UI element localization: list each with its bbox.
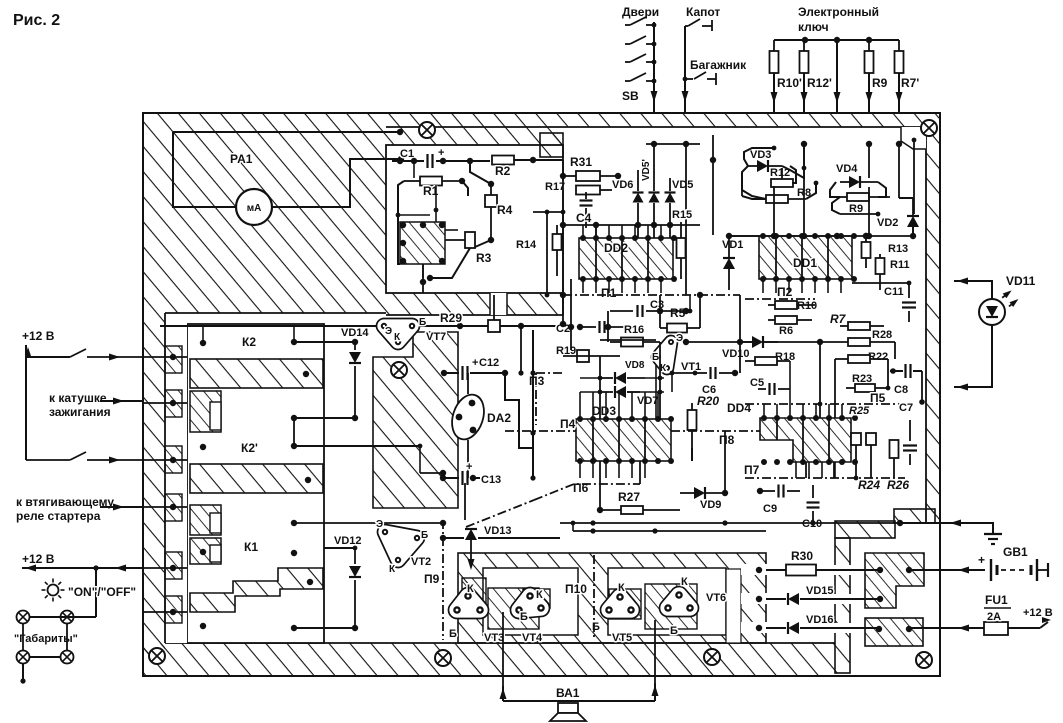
wire K2b pads link — [293, 418, 295, 446]
wire R2R4 — [470, 161, 491, 184]
wire DA2 top — [467, 373, 469, 394]
diode VD13 — [443, 537, 464, 539]
node C1 feed — [398, 156, 404, 162]
wire PA1 right — [271, 159, 401, 207]
svg-text:Рис. 2: Рис. 2 — [13, 12, 60, 29]
dash-dot П7 — [745, 477, 905, 479]
wire BA1 right — [654, 683, 656, 701]
transistor VT2 — [385, 532, 417, 560]
wire R9 left loop — [832, 197, 840, 214]
wire vert 871 down — [870, 445, 872, 478]
svg-text:R9: R9 — [872, 76, 888, 90]
wire row R29 — [160, 325, 380, 327]
lamp symbol sun — [48, 585, 59, 596]
switch starter — [26, 459, 70, 461]
lamp Габариты 3 — [17, 651, 30, 664]
wire vert 700 — [699, 295, 701, 328]
IC DD4 — [760, 418, 851, 462]
wire vert 600 mid — [599, 356, 601, 419]
wire VT1 down2 — [671, 373, 673, 392]
wire K2b row2 — [294, 445, 420, 447]
wire hor 538b — [560, 537, 593, 539]
resistor R4 — [485, 195, 497, 207]
board outline — [143, 113, 940, 676]
wire R8 left — [742, 196, 766, 199]
resistor R30 — [766, 569, 787, 571]
pads right slot — [756, 567, 762, 573]
wire VD16 to edge — [909, 627, 940, 629]
wire mid vertical 1 — [505, 373, 533, 448]
led arrows VD11 — [1000, 288, 1020, 309]
wire through DD2 — [595, 238, 597, 279]
wire key bus — [774, 39, 899, 41]
relay pad 12 — [305, 477, 311, 483]
wire bus DD2 top — [563, 224, 700, 226]
dash-dot П3 — [536, 372, 565, 374]
svg-text:VD8: VD8 — [625, 360, 645, 371]
copper finger 2 — [190, 505, 221, 535]
wire vert 894 down — [893, 458, 895, 478]
svg-text:VT1: VT1 — [681, 361, 701, 373]
svg-text:+: + — [472, 357, 478, 369]
wire vert 547 — [546, 212, 548, 295]
relay pad 6 — [291, 520, 297, 526]
copper sliver right of C1 region — [540, 133, 563, 157]
svg-text:R25: R25 — [849, 405, 870, 417]
dash-dot П2 — [745, 298, 815, 300]
wire VD6 up — [637, 170, 639, 191]
svg-text:П2: П2 — [777, 285, 793, 299]
wire row 373 ext — [673, 372, 695, 374]
svg-text:к втягивающему: к втягивающему — [16, 495, 114, 509]
relay pad 5 — [291, 443, 297, 449]
white slot in band — [490, 293, 507, 315]
svg-text:П8: П8 — [719, 433, 735, 447]
svg-text:R2: R2 — [495, 164, 511, 178]
wire R12 stubs — [781, 168, 783, 179]
white circuit region C1/R1 — [386, 145, 563, 293]
wire vert 660 — [659, 295, 661, 328]
svg-text:Электронный: Электронный — [798, 5, 879, 19]
wire lamps bottom — [30, 656, 61, 658]
svg-text:DD1: DD1 — [793, 256, 817, 270]
svg-text:R4: R4 — [497, 203, 513, 217]
svg-text:DD3: DD3 — [592, 404, 616, 418]
wire vert 571 — [570, 279, 572, 350]
wire K1 pad to bus — [294, 522, 443, 524]
copper band K2 — [190, 359, 323, 388]
wire key2 to DD1 — [803, 144, 805, 236]
wire hor 523 — [560, 522, 900, 524]
power pad 4 — [876, 626, 882, 632]
relay pad 4 — [200, 444, 206, 450]
stubs DD4 bottom — [795, 462, 797, 478]
wire R20 bottom — [691, 448, 693, 461]
svg-text:Э: Э — [376, 519, 383, 530]
relay pad 1 — [200, 340, 206, 346]
wire DD3 stub1 — [599, 461, 601, 510]
relay pad 7 — [200, 549, 206, 555]
wire bus DD1 top — [729, 235, 913, 237]
svg-text:VD6: VD6 — [612, 179, 633, 191]
wire channel 2 — [741, 593, 773, 604]
wire hor 295 stub — [689, 295, 691, 311]
wire hor 160b — [563, 159, 571, 161]
copper finger 1 — [190, 391, 221, 432]
svg-text:С12: С12 — [479, 357, 499, 369]
screw top middle — [419, 122, 435, 138]
copper band K1 staircase — [190, 568, 323, 612]
svg-text:ВА1: ВА1 — [556, 686, 580, 700]
pins DD1 — [760, 233, 766, 239]
wire vert 856 down — [855, 445, 857, 478]
wire к катушке — [100, 400, 143, 402]
small part R25b — [866, 433, 876, 445]
white slot right — [726, 569, 741, 643]
resistor R1 — [404, 180, 420, 182]
frame inner edge top — [386, 126, 926, 128]
wire +12V lower — [22, 567, 143, 569]
svg-text:R3: R3 — [476, 251, 492, 265]
svg-text:VD15: VD15 — [806, 585, 834, 597]
left tab 4 — [165, 494, 182, 521]
wire lamp stub — [22, 663, 24, 681]
IC DD3 — [576, 419, 671, 461]
copper mass bottom — [458, 553, 766, 643]
power pad 3 — [877, 596, 883, 602]
wire vert 608 — [607, 311, 609, 342]
svg-text:R12': R12' — [807, 76, 832, 90]
diode VD12 — [354, 548, 356, 564]
wire row 378 — [580, 377, 600, 379]
svg-text:R10: R10 — [797, 300, 817, 312]
node VD13 — [440, 535, 446, 541]
svg-text:С9: С9 — [763, 503, 777, 515]
frame inner edge right — [925, 127, 927, 523]
wire VD3 loop2 — [744, 148, 774, 166]
wire through DD4 — [776, 418, 778, 440]
svg-text:С5: С5 — [750, 377, 764, 389]
IC DD2 — [579, 238, 673, 279]
wire through DD3 — [592, 419, 594, 461]
wire hor 448 — [855, 447, 880, 449]
svg-text:GB1: GB1 — [1003, 545, 1028, 559]
pins DD2 — [580, 235, 586, 241]
svg-text:VD1: VD1 — [722, 239, 743, 251]
wire channel 1 — [741, 564, 773, 575]
svg-text:2А: 2А — [987, 611, 1001, 623]
svg-text:С8: С8 — [894, 384, 908, 396]
power pad block 2 — [865, 618, 923, 646]
wire K1 to VD12 — [294, 627, 355, 629]
copper pad square R3 — [400, 222, 445, 264]
capacitor C13 — [443, 477, 459, 479]
svg-text:Багажник: Багажник — [690, 58, 747, 72]
wire B v3 — [422, 264, 424, 278]
power strip gaps — [833, 565, 852, 575]
relay pad 3 — [291, 415, 297, 421]
wire PA1 top — [173, 131, 400, 133]
copper block PA1 area — [165, 127, 386, 313]
wire vert 835 — [834, 359, 836, 418]
dash-dot П4П8 — [505, 430, 576, 432]
screw top right — [921, 120, 937, 136]
svg-text:К: К — [618, 582, 625, 594]
wire vert 596 — [595, 225, 597, 238]
svg-text:П5: П5 — [870, 391, 886, 405]
wire +12V top — [26, 345, 70, 357]
svg-text:R7: R7 — [830, 312, 847, 326]
power pad 5 — [906, 626, 912, 632]
svg-text:VD16: VD16 — [806, 614, 834, 626]
svg-text:VT5: VT5 — [612, 632, 632, 644]
svg-text:К: К — [536, 589, 543, 601]
wire DD4 stubs — [805, 462, 807, 478]
svg-text:П7: П7 — [744, 463, 760, 477]
wire vert 820 — [819, 342, 821, 418]
svg-text:VD2: VD2 — [877, 217, 898, 229]
dash-dot П9 — [442, 520, 444, 640]
wire key right — [898, 144, 900, 198]
resistor R10' — [773, 40, 775, 51]
meter PA1 мА — [236, 189, 272, 225]
wire channel 3 — [741, 622, 773, 633]
dash-dot П5 — [745, 403, 908, 405]
border band right — [926, 127, 940, 523]
svg-text:Э: Э — [676, 333, 683, 344]
svg-text:VD4: VD4 — [836, 163, 858, 175]
svg-text:Э: Э — [385, 326, 392, 337]
dash-dot П1 vert — [562, 295, 564, 310]
copper band below C1 region — [386, 293, 563, 315]
wire VT1 down1 — [655, 365, 657, 419]
wire vert 660 mid — [659, 342, 661, 419]
svg-text:+: + — [978, 553, 985, 567]
svg-text:R15: R15 — [672, 209, 692, 221]
svg-text:+12 В: +12 В — [1023, 607, 1053, 619]
diode VD16 — [766, 627, 786, 629]
wire R30 to edge — [909, 569, 940, 571]
wire vert 895 — [894, 342, 896, 359]
wire row 342 ext — [686, 341, 752, 343]
wire ON/OFF stem — [95, 568, 97, 617]
svg-text:П3: П3 — [529, 374, 545, 388]
svg-text:R5: R5 — [670, 306, 686, 320]
island VT5 collector — [609, 589, 641, 619]
transistor VT1 — [658, 342, 671, 368]
wire row 531 — [573, 530, 766, 532]
left channel — [166, 320, 187, 643]
wire FU1 out — [1008, 627, 1040, 629]
diode VD14 — [354, 342, 356, 350]
left tab 5 — [165, 552, 182, 579]
wire K2b to VD14 — [294, 417, 355, 419]
svg-text:К: К — [681, 576, 688, 588]
wire vert 593 — [592, 523, 594, 538]
screw near C12 — [391, 362, 407, 378]
svg-text:R14: R14 — [516, 239, 537, 251]
svg-text:R29: R29 — [440, 311, 462, 325]
wire hor DD1 к — [729, 235, 759, 237]
wire B h1 — [398, 214, 430, 216]
wire relay r1 — [202, 326, 204, 343]
fuse FU1 — [984, 622, 1008, 635]
left tab pad 4 — [170, 504, 176, 510]
relay pad 8 — [291, 550, 297, 556]
relay pad 9 — [200, 623, 206, 629]
svg-text:реле стартера: реле стартера — [16, 509, 101, 523]
svg-text:PA1: PA1 — [230, 152, 253, 166]
wire VD4 stubs — [868, 144, 870, 178]
wire DA2 down — [467, 440, 469, 478]
svg-text:R30: R30 — [791, 549, 813, 563]
wire hor 340 — [600, 339, 656, 341]
svg-text:R7': R7' — [901, 76, 919, 90]
wire hor 311 ext — [660, 310, 686, 312]
svg-text:VT6: VT6 — [706, 592, 726, 604]
svg-text:Двери: Двери — [622, 5, 659, 19]
svg-text:VD14: VD14 — [341, 327, 369, 339]
wire mid vertical 2 — [520, 326, 522, 373]
wire FU1 — [940, 627, 984, 629]
resistor R3 — [465, 232, 475, 248]
svg-text:К: К — [394, 332, 401, 343]
wire реле стартера — [100, 506, 143, 508]
screw bottom left — [149, 648, 165, 664]
notch finger 3 — [210, 545, 221, 562]
wire row 392 — [580, 391, 600, 393]
capacitor C4 — [580, 199, 593, 201]
svg-text:VD10: VD10 — [722, 348, 750, 360]
ground symbol — [984, 533, 1002, 535]
svg-text:К1: К1 — [244, 540, 258, 554]
wire vert 686 — [685, 235, 687, 295]
stubs DD3 top — [579, 392, 581, 419]
dash-dot П10 — [593, 555, 595, 640]
wire vert 837 down — [836, 113, 838, 236]
left tab pad 5 — [170, 565, 176, 571]
wire +12V stem — [25, 357, 27, 460]
wire lamps top — [30, 616, 96, 618]
wire B h2 — [445, 229, 458, 231]
frame inner edge bottom — [165, 642, 835, 644]
lamp Габариты 4 — [61, 651, 74, 664]
wire VD12 top — [324, 547, 355, 549]
svg-text:VD9: VD9 — [700, 499, 721, 511]
speaker BA1 — [558, 703, 578, 713]
left tab pad 6 — [170, 609, 176, 615]
svg-text:R22: R22 — [868, 351, 888, 363]
left tab 6 — [165, 596, 182, 623]
switch ignition — [70, 349, 86, 357]
power top strip — [835, 521, 895, 538]
wire vert 713 — [712, 135, 714, 235]
diode VD15 — [766, 598, 786, 600]
relay pad 10 — [291, 625, 297, 631]
island VT4 collector — [523, 589, 550, 608]
resistor R7' top — [898, 40, 900, 51]
svg-text:R28: R28 — [872, 329, 892, 341]
wire B v1 — [413, 161, 415, 178]
svg-text:К2': К2' — [241, 441, 258, 455]
svg-text:R20: R20 — [697, 394, 719, 408]
wire vert left 563 — [562, 160, 564, 324]
svg-text:+: + — [438, 147, 444, 159]
svg-text:С13: С13 — [481, 474, 501, 486]
relay pad 11 — [303, 371, 309, 377]
switch Багажник — [685, 78, 693, 80]
stubs DD3 bottom — [579, 461, 581, 478]
wire PA1 loop — [173, 132, 237, 207]
wire C13 down — [464, 483, 466, 520]
svg-text:+12 В: +12 В — [22, 329, 55, 343]
wire DD3 stub2 — [639, 461, 641, 484]
border band top — [143, 113, 940, 127]
transistor VT4 — [519, 596, 541, 610]
svg-text:DA2: DA2 — [487, 411, 511, 425]
svg-text:VT2: VT2 — [411, 556, 431, 568]
wire B misc — [422, 264, 424, 293]
left tab 3 — [165, 446, 182, 473]
wire doors bus — [653, 22, 655, 113]
power pad block 1 — [865, 553, 924, 608]
relay pad 2 — [291, 339, 297, 345]
wire R12 right — [790, 166, 796, 183]
cutout VT5/VT6 — [608, 568, 726, 635]
copper band K2b — [190, 464, 323, 493]
svg-text:R16: R16 — [624, 324, 644, 336]
power pad 2 — [906, 567, 912, 573]
wire R18 vert — [789, 361, 791, 404]
svg-text:R26: R26 — [887, 478, 909, 492]
notch finger 2 — [210, 513, 221, 533]
wire hor 463 — [671, 439, 760, 441]
wire K2 to VD14 — [294, 341, 355, 343]
wire VD13 drop — [470, 545, 472, 566]
svg-text:Б: Б — [449, 628, 457, 640]
stubs DD2 bottom — [582, 279, 584, 293]
svg-text:мА: мА — [247, 203, 262, 214]
stubs DD4 top — [763, 404, 765, 418]
power top step — [894, 509, 935, 523]
switches SB doors — [625, 24, 630, 26]
resistor R9 top — [868, 40, 870, 51]
svg-text:R13: R13 — [888, 243, 908, 255]
svg-text:К: К — [467, 583, 474, 595]
wire VD2 to bus — [912, 227, 914, 236]
switch Капот — [688, 19, 700, 26]
wire GB1 — [940, 569, 985, 571]
svg-text:С11: С11 — [884, 286, 904, 298]
island center — [488, 588, 539, 629]
svg-text:FU1: FU1 — [985, 593, 1008, 607]
lamp Габариты 2 — [61, 611, 74, 624]
left tab pad 3 — [170, 457, 176, 463]
power left strip — [835, 538, 850, 673]
left tab 1 — [165, 346, 182, 373]
svg-text:VT3: VT3 — [484, 632, 504, 644]
resistor R12' — [803, 40, 805, 51]
left tab 2 — [165, 390, 182, 417]
wire through DD1 — [775, 236, 777, 279]
copper strip above C1 region — [386, 127, 563, 145]
svg-text:С1: С1 — [400, 148, 414, 160]
wire hor 283 — [852, 282, 909, 284]
wire R7' down — [898, 73, 900, 113]
wire R1 bends — [398, 181, 404, 200]
svg-text:Капот: Капот — [686, 5, 720, 19]
copper block C — [373, 332, 458, 508]
